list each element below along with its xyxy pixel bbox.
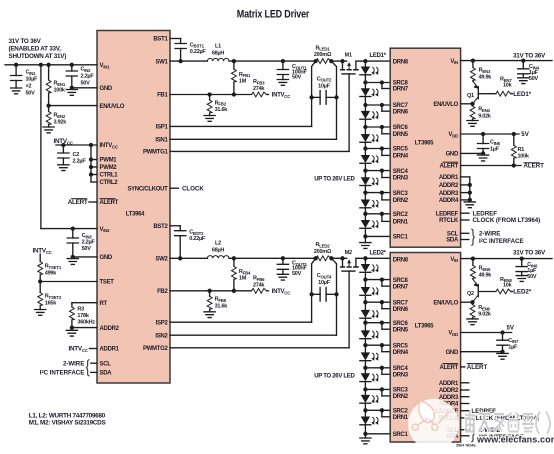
svg-text:274k: 274k: [253, 86, 265, 92]
svg-text:10µF: 10µF: [318, 280, 331, 286]
wire VIN (U2): [461, 58, 552, 62]
net label LEDREF (U3): [461, 408, 497, 415]
svg-text:RFB6: RFB6: [253, 276, 265, 282]
svg-text:L1: L1: [215, 44, 221, 50]
svg-text:CIN3: CIN3: [82, 233, 93, 239]
svg-text:10µF: 10µF: [318, 83, 331, 89]
wire VIN2 pin: [41, 226, 97, 230]
svg-text:DRN8: DRN8: [393, 257, 409, 263]
svg-text:178k: 178k: [77, 313, 89, 319]
svg-text:COUT4: COUT4: [317, 273, 332, 279]
svg-text:M1, M2: VISHAY Si2319CDS: M1, M2: VISHAY Si2319CDS: [29, 420, 106, 427]
LED D2c: [360, 302, 378, 323]
resistor RTSET2: [38, 282, 62, 310]
svg-text:DRN3: DRN3: [393, 373, 409, 379]
svg-text:DRN4: DRN4: [393, 154, 409, 160]
resistor REN5: [471, 259, 493, 280]
svg-text:SCL: SCL: [100, 361, 112, 367]
svg-text:ALERT: ALERT: [467, 364, 488, 371]
ground CIN7: [497, 353, 508, 359]
wire ISP1: [170, 97, 312, 126]
svg-text:UP TO 26V LED: UP TO 26V LED: [314, 176, 355, 182]
svg-text:165k: 165k: [45, 301, 57, 307]
svg-text:2.2µF: 2.2µF: [73, 158, 87, 164]
transistor Q1: [467, 81, 496, 104]
wire ADDR2 pin: [70, 325, 97, 329]
svg-text:VDD: VDD: [448, 132, 458, 138]
svg-text:5V: 5V: [521, 131, 529, 138]
ground REN2: [43, 127, 54, 133]
ground RFB5: [204, 312, 215, 318]
svg-text:1µF: 1µF: [490, 147, 500, 153]
inductor L1: [207, 44, 229, 62]
svg-text:I2C INTERFACE: I2C INTERFACE: [40, 369, 85, 377]
wire VIN1 rail: [5, 63, 97, 67]
LED D1h: [360, 214, 378, 237]
svg-text:CBST2: CBST2: [189, 229, 204, 235]
svg-text:GND: GND: [446, 152, 459, 158]
svg-text:SRC1: SRC1: [393, 432, 409, 438]
LED D2h: [360, 410, 378, 434]
svg-text:ISN2: ISN2: [155, 333, 168, 339]
transistor M2: [331, 250, 390, 271]
svg-text:SRC4: SRC4: [393, 366, 409, 372]
svg-text:LT3964: LT3964: [126, 212, 145, 218]
svg-text:SRC8: SRC8: [393, 278, 409, 284]
capacitor COUT1: [277, 61, 307, 81]
capacitor COUT3: [277, 258, 307, 277]
svg-text:BST1: BST1: [153, 37, 168, 43]
note UP TO 26V LED (2): [314, 374, 355, 380]
wire PWMTG1 (M1 gate): [170, 74, 349, 151]
svg-text:RFB2: RFB2: [215, 100, 227, 106]
net label CLOCK FROM LT3964 (U3): [461, 415, 539, 422]
svg-text:(ENABLED AT 33V,: (ENABLED AT 33V,: [9, 46, 62, 53]
svg-text:SRC7: SRC7: [393, 103, 409, 109]
svg-text:100k: 100k: [518, 153, 530, 159]
wire SRC1 (2): [363, 432, 390, 436]
svg-text:LED1*: LED1*: [370, 53, 387, 59]
svg-text:PWMTG2: PWMTG2: [143, 346, 168, 352]
wire PWMTG2 (M2 gate): [170, 271, 349, 348]
svg-text:INTVCC: INTVCC: [272, 93, 291, 99]
wire GND1 pin: [70, 86, 97, 90]
net label 5V (U3): [507, 324, 515, 331]
svg-text:360kHz: 360kHz: [77, 320, 95, 326]
svg-text:10k: 10k: [503, 282, 513, 288]
ground R3: [66, 330, 77, 336]
net label 31V TO 36V (U2): [513, 53, 546, 60]
capacitor CBST1: [170, 39, 206, 62]
transistor Q2: [467, 279, 496, 302]
svg-text:L1, L2: WURTH 7447709680: L1, L2: WURTH 7447709680: [29, 412, 106, 419]
svg-text:REN6: REN6: [478, 305, 490, 311]
svg-text:ISN1: ISN1: [155, 138, 168, 144]
net label CLOCK: [170, 185, 204, 192]
capacitor C2: [58, 145, 87, 165]
svg-text:ADDR3: ADDR3: [439, 395, 459, 401]
svg-text:×2: ×2: [26, 84, 32, 90]
resistor RFB3: [252, 79, 269, 97]
ground COUT1: [277, 80, 288, 86]
LED D2f: [360, 368, 378, 390]
svg-text:SRC4: SRC4: [393, 169, 409, 175]
svg-text:ALERT: ALERT: [68, 199, 88, 206]
wire SRC5/DRN4 tap: [363, 146, 390, 155]
resistor R3: [70, 303, 96, 328]
svg-text:INTVCC: INTVCC: [100, 143, 119, 149]
svg-text:DRN3: DRN3: [393, 176, 409, 182]
note parts: [29, 412, 106, 426]
svg-text:EN/UVLO: EN/UVLO: [433, 102, 458, 108]
svg-text:SDA: SDA: [446, 238, 459, 244]
svg-text:1M: 1M: [239, 79, 247, 85]
LED D1f: [360, 171, 378, 193]
svg-text:100k: 100k: [54, 88, 66, 94]
svg-text:ALERT: ALERT: [440, 164, 459, 170]
svg-text:GND: GND: [100, 86, 113, 92]
net label LEDREF (U2): [461, 210, 498, 217]
svg-text:www.elecfans.com: www.elecfans.com: [476, 434, 554, 444]
svg-text:Matrix LED Driver: Matrix LED Driver: [237, 8, 310, 20]
svg-text:Q1: Q1: [467, 93, 474, 99]
svg-text:CTRL2: CTRL2: [100, 180, 119, 186]
svg-text:DRN2: DRN2: [393, 198, 409, 204]
note UP TO 26V LED (1): [314, 176, 355, 182]
wire ADDR2 stub (U3): [461, 389, 469, 391]
ground ADDR (U2): [464, 202, 475, 208]
svg-text:LEDREF: LEDREF: [436, 211, 459, 217]
node LED1* (string 1 top): [363, 59, 367, 63]
net label LED2*: [370, 251, 387, 257]
svg-text:REN5: REN5: [479, 266, 491, 272]
capacitor CBST2: [170, 226, 206, 258]
net label INTVCC (TSET): [33, 248, 53, 255]
resistor R1: [511, 134, 530, 166]
wire SRC8/DRN7 tap (2): [363, 277, 390, 286]
wire SRC7/DRN6 tap (2): [363, 300, 390, 309]
svg-text:ALERT: ALERT: [524, 163, 545, 170]
capacitor CIN6: [516, 259, 538, 280]
svg-text:DRN5: DRN5: [393, 132, 409, 138]
svg-text:CIN7: CIN7: [508, 338, 519, 344]
svg-text:LED2*: LED2*: [513, 289, 532, 296]
LED D2e: [360, 345, 378, 368]
I2C interface label (U2): [461, 229, 524, 245]
ground CIN6: [516, 276, 527, 282]
svg-text:ALERT: ALERT: [440, 365, 459, 371]
resistor REN1: [46, 65, 66, 106]
wire SW2: [170, 256, 316, 260]
LED D1d: [360, 127, 378, 149]
ground string 1: [360, 236, 371, 248]
wire GND (U2): [461, 151, 486, 155]
svg-text:CLOCK: CLOCK: [182, 185, 204, 192]
svg-text:LED1*: LED1*: [513, 91, 532, 98]
svg-text:GND: GND: [446, 350, 459, 356]
svg-text:1M: 1M: [239, 276, 247, 282]
svg-text:I2C INTERFACE: I2C INTERFACE: [479, 237, 524, 245]
wire EN/UVLO (U3): [461, 300, 475, 304]
svg-text:274k: 274k: [253, 282, 265, 288]
svg-text:ADDR2: ADDR2: [439, 388, 459, 394]
svg-text:SHUTDOWN AT 31V): SHUTDOWN AT 31V): [9, 53, 67, 60]
svg-text:50V: 50V: [292, 271, 302, 277]
svg-text:UP TO 26V LED: UP TO 26V LED: [314, 374, 355, 380]
LED D1c: [360, 105, 378, 127]
wire ADDR1 stub (U3): [461, 382, 469, 384]
svg-text:LED2*: LED2*: [370, 251, 387, 257]
svg-text:VIN2: VIN2: [100, 227, 111, 233]
svg-text:RTSET2: RTSET2: [45, 294, 62, 300]
svg-text:EN/UVLO: EN/UVLO: [433, 300, 458, 306]
svg-text:CLOCK (FROM LT3964): CLOCK (FROM LT3964): [473, 217, 541, 224]
svg-text:SW1: SW1: [155, 59, 168, 65]
svg-text:50V: 50V: [82, 246, 92, 252]
net label ALERT (U3): [467, 364, 488, 372]
svg-text:TSET: TSET: [100, 280, 115, 286]
svg-text:LT3965: LT3965: [415, 323, 434, 329]
svg-text:DRN5: DRN5: [393, 327, 409, 333]
svg-text:SRC7: SRC7: [393, 300, 409, 306]
resistor RLED2: [314, 242, 334, 261]
resistor REN2: [46, 106, 67, 127]
wire SRC2/DRN1 tap (2): [363, 408, 390, 417]
svg-text:PWM1: PWM1: [100, 158, 118, 164]
svg-text:9.02k: 9.02k: [478, 312, 492, 318]
net label ALERT (U2): [524, 163, 545, 170]
svg-text:31.6k: 31.6k: [215, 107, 229, 113]
svg-text:31.6k: 31.6k: [215, 303, 229, 309]
ground RTSET2: [35, 310, 46, 316]
svg-text:SRC6: SRC6: [393, 125, 409, 131]
svg-text:LT3965: LT3965: [415, 141, 434, 147]
wire VDD (U3): [461, 330, 512, 334]
svg-text:0.22µF: 0.22µF: [190, 49, 207, 55]
svg-text:50V: 50V: [26, 91, 36, 97]
note figure number: [456, 444, 477, 448]
svg-text:ISP2: ISP2: [156, 320, 169, 326]
resistor REN3: [471, 61, 493, 82]
wire SRC8/DRN7 tap: [363, 80, 390, 88]
svg-text:49.9k: 49.9k: [479, 74, 493, 80]
resistor RLED1: [313, 45, 333, 63]
wire ISP2: [170, 294, 312, 322]
svg-text:RTCLK: RTCLK: [439, 218, 459, 224]
watermark text: [465, 412, 554, 445]
svg-text:SRC3: SRC3: [393, 191, 409, 197]
svg-text:SW2: SW2: [155, 257, 168, 263]
svg-text:CTRL1: CTRL1: [100, 173, 119, 179]
wire ADDR bus (U2): [461, 177, 472, 202]
svg-text:VIN1: VIN1: [100, 63, 111, 69]
wire ADDR4 stub (U3): [461, 403, 469, 405]
svg-text:Q2: Q2: [467, 291, 474, 297]
svg-text:M1: M1: [345, 52, 352, 58]
svg-text:REN3: REN3: [479, 68, 491, 74]
svg-text:RTSET1: RTSET1: [45, 264, 62, 270]
svg-text:RFB3: RFB3: [253, 79, 265, 85]
svg-text:R1: R1: [518, 147, 525, 153]
LED D1g: [360, 193, 378, 214]
resistor RTSET1: [38, 254, 62, 282]
wire SW1: [170, 59, 316, 63]
svg-text:DRN7: DRN7: [393, 87, 409, 93]
svg-text:L2: L2: [215, 241, 221, 247]
wire ISN2: [170, 294, 337, 335]
wire VDD (U2): [461, 132, 519, 136]
I2C interface label (LT3964): [40, 360, 97, 377]
ground C2: [58, 165, 69, 171]
svg-text:5V: 5V: [507, 324, 515, 331]
net label INTVCC (C2): [54, 138, 74, 145]
wire SRC4/DRN3 tap: [363, 168, 390, 177]
wire SRC1: [363, 234, 390, 238]
svg-text:3964 TA04a: 3964 TA04a: [456, 444, 477, 448]
svg-text:ADDR3: ADDR3: [439, 191, 459, 197]
wire TSET pin: [38, 279, 97, 283]
wire GND2 pin: [71, 255, 97, 259]
svg-text:SRC5: SRC5: [393, 343, 409, 349]
svg-text:BST2: BST2: [153, 224, 168, 230]
capacitor CIN3: [67, 229, 95, 257]
wire ADDR3 stub (U3): [461, 396, 469, 398]
ground CIN3: [67, 259, 78, 265]
svg-text:C2: C2: [73, 152, 80, 158]
ground REN6: [467, 319, 478, 325]
ground string 2: [360, 434, 371, 444]
svg-text:INTVCC: INTVCC: [272, 289, 291, 295]
resistor RFB1: [232, 61, 252, 94]
svg-text:31V TO 36V: 31V TO 36V: [9, 38, 42, 45]
svg-text:CIN1: CIN1: [26, 70, 37, 76]
wire EN/UVLO (U2): [461, 102, 475, 106]
svg-text:DRN1: DRN1: [393, 415, 409, 421]
svg-text:ISP1: ISP1: [156, 125, 169, 131]
resistor RFB6: [252, 276, 269, 294]
svg-text:50V: 50V: [81, 81, 91, 87]
resistor RFB4: [232, 258, 252, 291]
svg-text:SDA: SDA: [100, 371, 113, 377]
capacitor CIN4: [518, 61, 540, 82]
resistor REN4: [470, 104, 492, 121]
net label CLOCK FROM LT3964 (U2): [461, 217, 541, 224]
wire SRC7/DRN6 tap: [363, 103, 390, 111]
wire ISN1: [170, 97, 337, 139]
wire ALERT (U3): [461, 366, 465, 368]
LED D2b: [360, 280, 378, 303]
wire ALERT (U2): [461, 163, 521, 167]
svg-text:VIN: VIN: [450, 257, 458, 263]
svg-text:SRC2: SRC2: [393, 409, 409, 415]
net label 31V TO 36V (input): [9, 38, 67, 60]
wire SRC6/DRN5 tap: [363, 125, 390, 134]
net label INTVCC (FB1): [272, 93, 291, 99]
svg-text:EN/UVLO: EN/UVLO: [100, 104, 125, 110]
svg-text:3.92k: 3.92k: [54, 120, 68, 126]
wire SRC2/DRN1 tap: [363, 212, 390, 222]
watermark logo: [408, 399, 459, 450]
svg-text:0.22µF: 0.22µF: [189, 236, 206, 242]
svg-text:31V TO 36V: 31V TO 36V: [513, 250, 546, 257]
net label LED1* (U2): [513, 91, 532, 98]
capacitor CIN1: [11, 65, 39, 97]
svg-text:68µH: 68µH: [212, 50, 225, 56]
svg-text:SRC5: SRC5: [393, 147, 409, 153]
svg-text:1µF: 1µF: [508, 345, 518, 351]
svg-text:REN4: REN4: [478, 107, 490, 113]
node LED2* (string 2 top): [363, 256, 367, 260]
wire SRC5/DRN4 tap (2): [363, 343, 390, 352]
net label LED2* (U3): [513, 289, 532, 296]
svg-text:FB1: FB1: [157, 93, 168, 99]
resistor REN7: [496, 77, 513, 97]
svg-text:SRC1: SRC1: [393, 235, 409, 241]
svg-text:M2: M2: [345, 250, 352, 256]
svg-text:200mΩ: 200mΩ: [314, 52, 332, 58]
svg-text:200mΩ: 200mΩ: [314, 249, 332, 255]
svg-text:ALERT: ALERT: [100, 200, 119, 206]
capacitor CIN5: [478, 134, 501, 153]
wire 31V rail down to VIN2: [40, 65, 42, 229]
svg-text:2-WIRE: 2-WIRE: [63, 360, 84, 367]
svg-text:ADDR2: ADDR2: [100, 326, 120, 332]
svg-text:10µF: 10µF: [26, 77, 39, 83]
wire VIN (U3): [461, 256, 552, 260]
svg-text:31V TO 36V: 31V TO 36V: [513, 53, 546, 60]
wire INTVCC pin: [56, 143, 97, 147]
svg-text:SYNC/CLKOUT: SYNC/CLKOUT: [127, 186, 168, 192]
wire FB1: [170, 92, 252, 96]
svg-text:DRN6: DRN6: [393, 307, 409, 313]
net label 5V (U2): [521, 131, 529, 138]
svg-text:50V: 50V: [292, 75, 302, 81]
svg-text:499k: 499k: [45, 271, 57, 277]
svg-text:DRN7: DRN7: [393, 284, 409, 290]
wire PWM/CTRL bus: [89, 145, 97, 182]
svg-text:COUT2: COUT2: [317, 76, 332, 82]
IC U3 LT3965 (bottom): [390, 253, 460, 443]
wire SRC6/DRN5 tap (2): [363, 321, 390, 330]
inductor L2: [207, 241, 229, 259]
wire SRC3/DRN2 tap (2): [363, 387, 390, 396]
svg-text:10k: 10k: [503, 82, 513, 88]
svg-text:GND: GND: [100, 255, 113, 261]
wire SRC3/DRN2 tap: [363, 190, 390, 199]
svg-text:SRC2: SRC2: [393, 212, 409, 218]
ground REN4: [467, 121, 478, 127]
svg-text:ADDR1: ADDR1: [439, 175, 459, 181]
LED D2a: [360, 258, 378, 279]
resistor REN6: [470, 302, 492, 319]
LED D2d: [360, 323, 378, 346]
svg-text:DRN6: DRN6: [393, 109, 409, 115]
svg-text:RFB4: RFB4: [239, 269, 251, 275]
svg-text:49.9k: 49.9k: [479, 272, 493, 278]
ground RFB2: [204, 116, 215, 122]
svg-text:2.2µF: 2.2µF: [82, 240, 96, 246]
ground COUT3: [277, 274, 288, 280]
svg-text:DRN8: DRN8: [393, 59, 409, 65]
net label INTVCC (ADDR1): [68, 346, 97, 353]
svg-text:PWM2: PWM2: [100, 165, 118, 171]
svg-text:PWMTG1: PWMTG1: [143, 150, 168, 156]
capacitor CIN2: [66, 65, 94, 88]
svg-text:FB2: FB2: [157, 289, 168, 295]
svg-text:SCL: SCL: [447, 232, 459, 238]
LED D1a: [360, 61, 378, 82]
svg-text:REN1: REN1: [54, 81, 66, 87]
